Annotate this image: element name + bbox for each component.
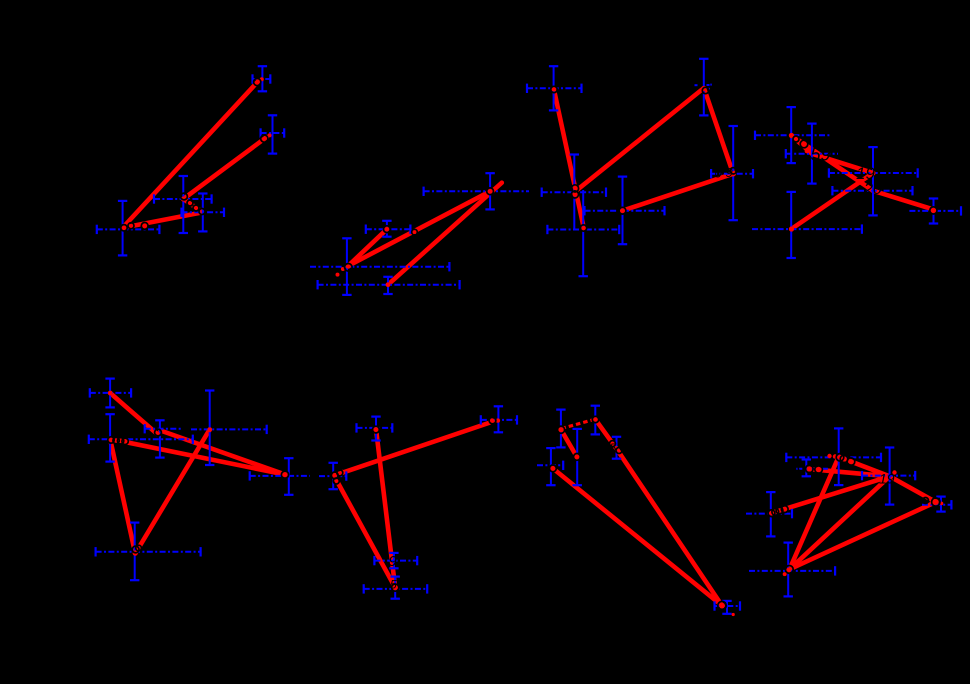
svg-text:9: 9 — [726, 165, 733, 180]
error bars point X — [250, 458, 310, 495]
error bars point II — [537, 448, 563, 485]
red line c8 OO-MM — [771, 476, 889, 513]
error bars point F — [310, 238, 449, 295]
red line c3 J-L — [623, 174, 734, 211]
error bars point E — [366, 221, 411, 237]
red line c4 S-P — [791, 173, 873, 229]
red line c1 P5-A — [123, 81, 259, 228]
red line c8 PP-MM — [790, 476, 890, 569]
red line c6 BB-AA — [334, 421, 495, 476]
error bars point D — [424, 173, 529, 209]
error bars point Y — [96, 523, 201, 581]
red line c5 V-X — [161, 431, 286, 475]
red line c3 I-J — [704, 88, 733, 174]
svg-text:59: 59 — [811, 145, 831, 165]
error bars point G — [318, 277, 460, 294]
red line c6 Z-DD — [376, 429, 395, 588]
error bars point P3 — [154, 176, 212, 233]
red line c1 P3-B — [183, 137, 266, 199]
error bars point HH — [573, 429, 582, 485]
black digit labels over red — [389, 145, 895, 592]
error bars point P4 — [182, 194, 225, 232]
red line c2 F-D — [348, 191, 490, 266]
red line c5 U-Y — [110, 439, 135, 554]
error bars point CC — [374, 553, 417, 568]
svg-text:5: 5 — [390, 578, 397, 592]
svg-text:9: 9 — [389, 553, 398, 570]
error bars point A — [253, 66, 271, 91]
red line c8 KK-MM — [839, 457, 890, 477]
error bars point U — [89, 414, 193, 461]
tiny blue dashes near point I — [695, 85, 712, 89]
error bars point N — [755, 107, 830, 163]
red line c5 U-X — [110, 439, 285, 475]
error bars point NN — [922, 497, 951, 512]
red line c2 F-E — [348, 229, 387, 266]
error bars point MM — [862, 448, 915, 505]
error bars point P — [829, 147, 918, 191]
red line c7 GG-JJ — [617, 449, 723, 606]
red point markers — [108, 77, 943, 616]
svg-text:20: 20 — [863, 181, 882, 198]
error bars point Q — [832, 173, 912, 215]
svg-text:5: 5 — [610, 441, 617, 455]
error bars point JJ — [715, 601, 741, 614]
svg-text:19: 19 — [879, 471, 895, 487]
black marker rings over red — [108, 78, 940, 609]
red line c8 KK-PP — [790, 457, 839, 570]
red line c5 T-V — [110, 393, 157, 434]
error bars point Wp — [191, 391, 267, 466]
red line c4 N-Q — [791, 135, 873, 190]
error bars point OO — [746, 492, 792, 536]
error bars point B — [261, 115, 285, 153]
red line c7 FF-GG — [595, 419, 616, 448]
red line c2 G-D — [388, 183, 502, 285]
error bars point O — [786, 124, 838, 184]
red line c8 PP-NN — [790, 502, 936, 569]
error bars point Z — [357, 417, 393, 441]
red line c8 MM-NN — [890, 476, 936, 502]
error bars point M — [547, 190, 619, 276]
red line c3 H-M — [554, 89, 584, 229]
red dashed line c7 EE-FF — [562, 420, 595, 429]
error bars point S — [752, 192, 862, 258]
red line c8 LL-MM — [806, 469, 889, 477]
error bars point DD — [364, 577, 428, 599]
error bars point J — [711, 126, 753, 220]
error bars point KK — [786, 428, 881, 485]
red line c6 BB-DD — [334, 476, 395, 588]
error bars point T — [90, 379, 131, 408]
error bars point BB — [319, 463, 346, 489]
error bars point GG — [612, 437, 621, 459]
red line c1 P5-P4 — [123, 212, 203, 228]
error bars point AA — [481, 406, 517, 432]
red line c5 W-Y — [135, 429, 209, 553]
error bars point L — [585, 177, 665, 245]
error bars point EE — [556, 410, 565, 448]
error bars point PP — [749, 543, 835, 597]
error bars point I — [699, 59, 708, 116]
error bars point V — [145, 420, 183, 457]
red line c7 EE-HH — [561, 430, 577, 457]
error bars point LL — [796, 460, 828, 477]
error bars point R — [909, 199, 961, 224]
error bars point FF — [591, 406, 600, 435]
red line c4 N-O — [791, 135, 812, 153]
error bars point K — [542, 155, 606, 231]
red line c4 O-P — [812, 154, 873, 173]
red line c1 P3-P4 — [183, 199, 203, 212]
red line c3 K-I — [574, 88, 704, 192]
red line c7 II-JJ — [553, 468, 722, 605]
error bars point Hh — [527, 66, 582, 110]
red line c4 Q-R — [873, 191, 935, 210]
svg-text:0: 0 — [715, 166, 723, 181]
error bars point P5 — [97, 201, 160, 256]
